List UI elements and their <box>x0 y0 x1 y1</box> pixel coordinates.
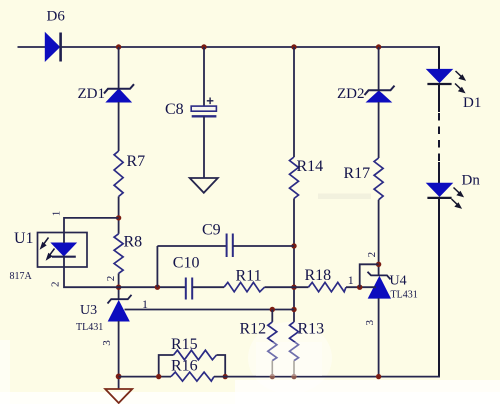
wire ZD2 to R17 <box>378 102 380 158</box>
wire ref-cathode bend <box>360 264 379 287</box>
svg-text:C9: C9 <box>202 222 221 239</box>
node R15 right <box>223 374 228 379</box>
op-amp U3 TL431 <box>76 295 132 333</box>
zener ZD1 <box>78 84 135 102</box>
node R11/R18 line <box>291 285 296 290</box>
resistor R12 <box>240 321 277 361</box>
node R12 bottom <box>270 374 275 379</box>
wire top rail D6 to right corner <box>60 46 439 48</box>
op-amp U4 TL431 <box>368 272 418 301</box>
wire ZD1 to R7 <box>118 102 120 151</box>
wire R14 down x=294 <box>293 199 295 322</box>
svg-text:ZD1: ZD1 <box>78 86 106 102</box>
wire C9 right horizontal <box>233 245 294 247</box>
svg-text:TL431: TL431 <box>391 290 418 301</box>
wire U3 ref line y=309.5 <box>125 309 295 311</box>
svg-text:3: 3 <box>101 340 113 346</box>
capacitor C8 <box>165 98 216 119</box>
wire bottom rail left <box>119 376 171 378</box>
node top rail x=118 <box>116 44 121 49</box>
svg-text:R11: R11 <box>236 268 262 285</box>
wire C9 stub vertical <box>156 246 158 287</box>
svg-text:1: 1 <box>142 297 148 311</box>
svg-text:R15: R15 <box>171 336 198 353</box>
ground U3 <box>105 389 132 403</box>
diode D6 <box>45 9 65 62</box>
node R15 left <box>156 374 161 379</box>
svg-text:R7: R7 <box>127 153 146 170</box>
wire dashed LED string <box>438 113 440 162</box>
node C9 stub <box>155 285 160 290</box>
node ground junction <box>116 374 122 380</box>
svg-text:R18: R18 <box>305 267 332 284</box>
svg-text:ZD2: ZD2 <box>337 86 365 102</box>
wire Dn down right side <box>438 198 440 377</box>
LED Dn <box>427 173 480 208</box>
resistor R8 <box>114 234 142 274</box>
svg-text:2: 2 <box>105 276 117 282</box>
wire R7 to node <box>118 197 120 234</box>
svg-text:R12: R12 <box>240 321 267 338</box>
wire R8 to U3 <box>118 273 120 299</box>
svg-text:C8: C8 <box>165 101 184 118</box>
optocoupler U1 <box>10 230 88 282</box>
resistor R14 <box>290 157 324 199</box>
svg-text:R8: R8 <box>124 234 143 251</box>
wire U3 to ground junction <box>118 321 120 389</box>
svg-text:R13: R13 <box>298 321 325 338</box>
wire x=204 rail to C8 <box>203 47 205 106</box>
resistor R7 <box>114 151 145 197</box>
svg-text:C10: C10 <box>173 255 200 272</box>
svg-text:U1: U1 <box>14 230 34 247</box>
wire R13 to bottom rail <box>293 361 295 377</box>
svg-text:D6: D6 <box>47 9 66 25</box>
svg-text:1: 1 <box>51 211 63 217</box>
wire C9 left horizontal <box>157 245 226 247</box>
node R12 top <box>270 307 275 312</box>
svg-text:U4: U4 <box>390 274 407 289</box>
wire x=118 rail to ZD1 <box>118 47 120 89</box>
wire R17 to U4 <box>378 200 380 276</box>
node feedback junction x=118 <box>116 285 121 290</box>
svg-text:817A: 817A <box>10 271 33 282</box>
watermark band bottom <box>0 194 500 404</box>
svg-text:3: 3 <box>364 319 376 325</box>
svg-text:U3: U3 <box>80 303 97 318</box>
resistor R16 <box>171 358 214 382</box>
ground C8 <box>190 178 218 193</box>
wire R11 to R18 <box>265 286 309 288</box>
wire bottom rail right <box>214 376 440 378</box>
wire top rail left of D6 <box>18 46 46 48</box>
wire dashed to Dn <box>438 162 440 184</box>
node top rail x=294 <box>291 44 296 49</box>
node U4 bottom <box>376 374 381 379</box>
node R13 bottom <box>291 374 296 379</box>
node top rail x=204 <box>201 44 206 49</box>
resistor R17 <box>344 158 384 200</box>
svg-text:D1: D1 <box>463 95 481 111</box>
zener ZD2 <box>337 86 395 102</box>
svg-text:2: 2 <box>366 252 378 258</box>
node U4 cathode bend <box>376 262 381 267</box>
resistor R15 parallel branch <box>159 336 226 377</box>
wire U1 pin2 to node <box>64 257 119 288</box>
node R18 ref junction <box>357 285 362 290</box>
wire x=378 rail to ZD2 <box>378 47 380 90</box>
svg-text:2: 2 <box>50 281 62 287</box>
wire R12 to bottom rail <box>271 361 273 377</box>
watermark overlay blob <box>256 342 322 376</box>
svg-text:1: 1 <box>348 273 354 287</box>
resistor R18 <box>305 267 347 292</box>
wire R12 top stub <box>271 310 273 322</box>
wire C10 to R11 <box>192 286 224 288</box>
svg-text:R14: R14 <box>297 158 324 175</box>
svg-text:Dn: Dn <box>462 173 481 189</box>
wire x=439 rail corner down to D1 <box>438 46 440 69</box>
node C9 right <box>291 243 296 248</box>
node U1 pin1 junction <box>116 215 121 220</box>
svg-text:TL431: TL431 <box>76 322 103 333</box>
svg-text:R17: R17 <box>344 165 371 182</box>
node R13 top <box>291 307 296 312</box>
wire D1 to dashed <box>438 84 440 112</box>
wire U1 pin1 to node <box>64 218 119 243</box>
capacitor C10 <box>173 255 200 300</box>
wire R18 to U4 ref <box>346 286 376 288</box>
wire x=294 rail to R14 <box>293 47 295 157</box>
wire feedback line y=287 <box>119 286 186 288</box>
capacitor C9 <box>202 222 233 258</box>
node top rail x=378 <box>376 44 381 49</box>
wire U4 to bottom rail <box>378 298 380 377</box>
wire C8 to ground <box>203 116 205 178</box>
LED D1 <box>427 69 481 111</box>
resistor R13 <box>290 321 325 361</box>
resistor R11 <box>224 268 265 292</box>
